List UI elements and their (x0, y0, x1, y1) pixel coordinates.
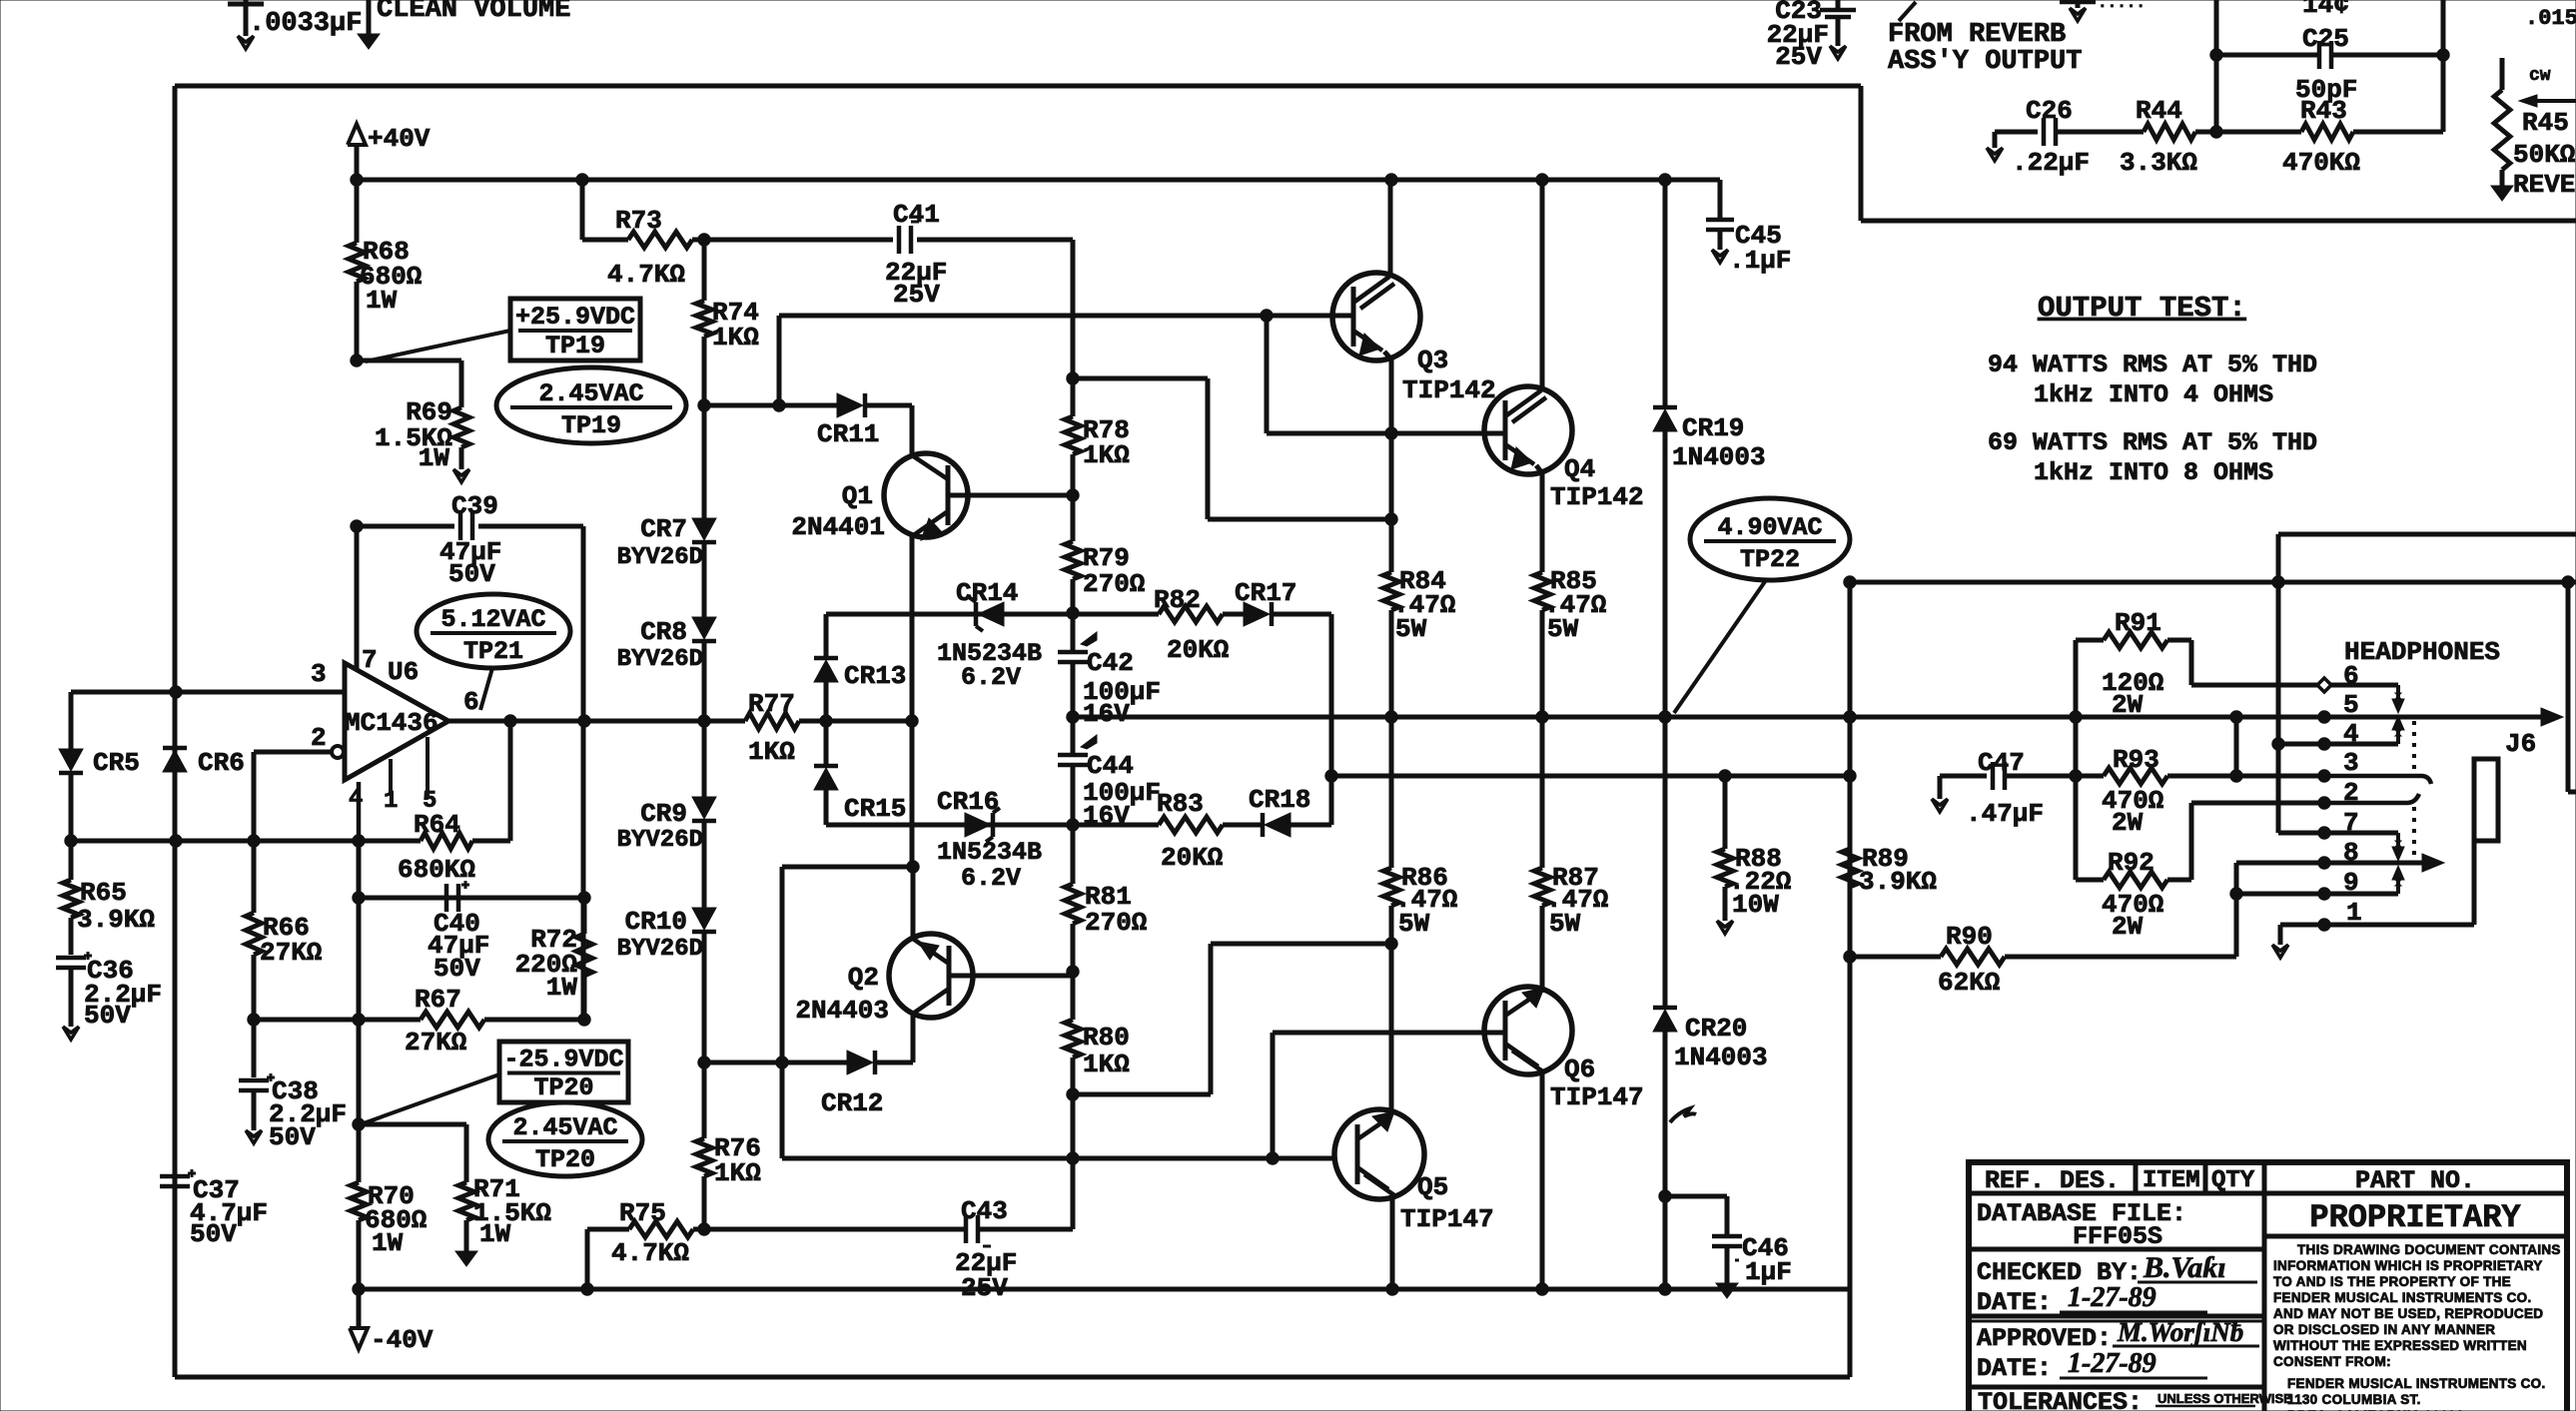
svg-text:1KΩ: 1KΩ (1083, 440, 1130, 470)
diode CR7 BYV26D (692, 518, 716, 540)
wire CLEAN VOLUME net (367, 0, 372, 34)
svg-text:DATE:: DATE: (1977, 1354, 2052, 1383)
resistor R70 680ohm 1W (357, 1124, 362, 1182)
wire to C42 (1071, 613, 1076, 651)
svg-text:CR8: CR8 (640, 617, 687, 647)
node R44/R43 junction (2210, 126, 2222, 138)
svg-text:4.7KΩ: 4.7KΩ (611, 1238, 689, 1268)
svg-text:R44: R44 (2136, 96, 2182, 126)
svg-text:4.7KΩ: 4.7KΩ (607, 260, 685, 290)
wire row 9 (2236, 892, 2324, 897)
op-amp pin4 stub (357, 782, 362, 841)
diode CR16 zener 1N5234B (965, 813, 991, 837)
svg-text:R93: R93 (2113, 745, 2159, 775)
svg-text:1-27-89: 1-27-89 (2068, 1282, 2156, 1313)
wire CR5 top (69, 692, 74, 749)
svg-text:REF. DES.: REF. DES. (1985, 1166, 2120, 1195)
diode CR19 1N4003 (1653, 405, 1677, 410)
wire upper corner feed (2278, 532, 2576, 537)
svg-text:1W: 1W (372, 1228, 404, 1258)
transistor Q5 TIP147 (1334, 1109, 1424, 1199)
svg-text:16V: 16V (1083, 699, 1130, 729)
svg-text:R45: R45 (2522, 108, 2569, 138)
testpoint box -25.9VDC TP20 (499, 1042, 628, 1102)
svg-text:TP20: TP20 (535, 1145, 595, 1174)
svg-text:6: 6 (463, 687, 479, 717)
svg-text:U6: U6 (388, 657, 419, 687)
svg-text:R91: R91 (2115, 608, 2161, 638)
svg-text:FROM REVERB: FROM REVERB (1888, 20, 2066, 50)
resistor R71 1.5K 1W (458, 1182, 474, 1220)
resistor R86 .47 5W (1389, 717, 1394, 868)
resistor R84 .47 5W (1383, 572, 1399, 610)
resistor R92 470 2W (2076, 878, 2104, 883)
svg-text:R80: R80 (1083, 1023, 1130, 1053)
svg-text:62KΩ: 62KΩ (1938, 968, 2000, 998)
wire CR7 chain upper (702, 405, 707, 518)
wire Q3 emitter down (1384, 352, 1391, 359)
wire Q3 base feed (777, 316, 782, 405)
node CR19/rail (1659, 711, 1671, 723)
svg-text:1N4003: 1N4003 (1674, 1043, 1768, 1072)
svg-text:TIP142: TIP142 (1550, 482, 1644, 512)
node CR12/Q2emitter-loop (776, 1057, 788, 1068)
capacitor C45 .1uF at +40 rail end (1718, 180, 1723, 219)
testpoint oval 5.12VAC TP21 (417, 594, 570, 668)
wire row 7 (2278, 831, 2398, 836)
resistor R77 1K (745, 713, 799, 729)
node Q1 base / R78-R79 (1067, 489, 1079, 501)
ground below R71 (filled) (455, 1251, 477, 1266)
capacitor C43 22uF 25V (964, 1215, 969, 1243)
svg-text:1130 COLUMBIA ST.: 1130 COLUMBIA ST. (2287, 1392, 2421, 1407)
svg-text:2W: 2W (2112, 808, 2144, 838)
svg-text:TP21: TP21 (463, 637, 523, 666)
wire stub diagonal (1899, 2, 1916, 21)
node rail/row3 link (2230, 711, 2242, 723)
svg-text:B.Vaƙı: B.Vaƙı (2143, 1251, 2226, 1284)
row9 corner switch arrow (2396, 880, 2400, 894)
svg-text:1W: 1W (366, 286, 398, 316)
resistor R44 3.3K (2144, 124, 2195, 140)
svg-text:CLEAN VOLUME: CLEAN VOLUME (377, 0, 570, 25)
capacitor C47 .47uF with ground stub (1938, 776, 1943, 799)
svg-text:.1µF: .1µF (1729, 246, 1791, 276)
svg-text:470KΩ: 470KΩ (2282, 148, 2360, 178)
node pin2 (2318, 797, 2330, 809)
wire Q1 emitter down (910, 536, 915, 867)
svg-text:7: 7 (362, 645, 378, 675)
row7 corner switch arrow (2396, 833, 2400, 847)
wire R64 vertical (508, 721, 513, 841)
wire phones feed from border (1844, 576, 1856, 588)
wire vertical right side of C25 (2441, 0, 2446, 132)
capacitor C36 2.2uF 50V (56, 956, 86, 961)
testpoint oval 2.45VAC TP19 (496, 367, 686, 443)
wire op-amp output (448, 719, 745, 724)
resistor R87 .47 5W (1540, 717, 1545, 868)
svg-text:CR15: CR15 (844, 794, 906, 824)
svg-text:1N4003: 1N4003 (1672, 442, 1766, 472)
resistor R78 1K (1065, 416, 1081, 454)
svg-text:1N5234B: 1N5234B (937, 838, 1042, 867)
diode CR8 BYV26D (692, 617, 716, 639)
ground below C36 (63, 1027, 79, 1040)
node R88 top (1719, 770, 1731, 782)
row1 ground stub (2278, 925, 2283, 945)
svg-text:+40V: +40V (368, 124, 430, 154)
+40V supply arrow (348, 124, 366, 145)
node R91 vert / rail (2070, 711, 2082, 723)
svg-text:1W: 1W (546, 973, 578, 1003)
wire phones feed row (1331, 774, 1850, 779)
TP22 pointer line (1674, 580, 1766, 713)
diode CR18 (1261, 813, 1266, 837)
transistor Q1 2N4401 (884, 453, 968, 537)
node row4 start (2272, 738, 2284, 750)
wire Q1 base to R78/R79 node (948, 493, 1073, 498)
-40V supply arrow (357, 1289, 362, 1328)
wire CR11 row (704, 403, 837, 408)
diode CR6 (on border line) (163, 746, 187, 751)
svg-text:TIP142: TIP142 (1402, 375, 1496, 405)
svg-text:BYV26D: BYV26D (617, 544, 703, 571)
svg-text:50V: 50V (84, 1001, 131, 1031)
op-amp U1 triangle U6 MC1436 (345, 663, 448, 780)
svg-text:PART NO.: PART NO. (2355, 1166, 2475, 1195)
testpoint oval 2.45VAC TP20 (488, 1102, 642, 1176)
svg-text:UNLESS OTHERWISE: UNLESS OTHERWISE (2157, 1391, 2292, 1406)
svg-text:2W: 2W (2112, 912, 2144, 942)
title block header row (1969, 1191, 2567, 1196)
svg-text:cw: cw (2529, 66, 2551, 86)
wire CR16 row (826, 823, 1073, 828)
ground (filled arrow) (358, 34, 380, 49)
ink smudge (1670, 1108, 1696, 1122)
svg-text:1: 1 (2346, 898, 2362, 928)
node CR13-CR15 / output wire (820, 715, 832, 727)
svg-text:3: 3 (2343, 748, 2359, 778)
svg-text:CR7: CR7 (640, 514, 687, 544)
wire CR17 corner down (1272, 612, 1331, 617)
node Q3 base feed tap (773, 399, 785, 411)
wire CR12 row (704, 1060, 847, 1065)
wire Q1 collector (910, 405, 915, 454)
row4 corner switch arrow (2396, 730, 2400, 744)
svg-text:4: 4 (2343, 719, 2359, 749)
wire Q4 collector to +40 (1540, 180, 1545, 390)
svg-text:25V: 25V (961, 1273, 1008, 1303)
resistor R64 680K (421, 833, 472, 849)
wire row1 to jack (2472, 841, 2477, 925)
wire R67 row (254, 1018, 421, 1023)
TP19 pointer line (366, 331, 510, 361)
node R66/R67 row (248, 1014, 260, 1026)
svg-text:3.9KΩ: 3.9KΩ (77, 905, 155, 935)
svg-text:TP20: TP20 (533, 1073, 593, 1102)
wire staircase from R80 (1073, 1092, 1211, 1097)
resistor R74 1K (702, 240, 707, 301)
svg-text:25V: 25V (893, 280, 940, 310)
svg-text:TP19: TP19 (561, 411, 621, 440)
node R80 bottom / staircase (1067, 1088, 1079, 1100)
svg-text:2: 2 (311, 723, 327, 753)
svg-text:5W: 5W (1547, 614, 1579, 644)
node R64/main rail (353, 835, 365, 847)
potentiometer R45 50K REVERB (2500, 58, 2505, 90)
node R67/R72 (578, 1014, 590, 1026)
svg-text:BYV26D: BYV26D (617, 827, 703, 854)
node output rail start (1067, 711, 1079, 723)
svg-text:4.90VAC: 4.90VAC (1717, 513, 1822, 542)
svg-text:270Ω: 270Ω (1083, 569, 1145, 599)
node row9 tap (2230, 888, 2242, 900)
svg-text:HEADPHONES: HEADPHONES (2344, 637, 2500, 667)
svg-text:.015µ: .015µ (2525, 6, 2576, 31)
svg-text:5: 5 (2343, 690, 2359, 720)
wire vertical from top to R44 row (2214, 0, 2219, 132)
speaker arrow at rail end (2541, 708, 2563, 726)
resistor R69 1.5K 1W (453, 407, 469, 447)
wire R90 row (1850, 955, 1941, 960)
wire CR14 row (826, 612, 1073, 617)
capacitor C40 47uF 50V (444, 884, 449, 912)
svg-text:R43: R43 (2300, 96, 2347, 126)
svg-text:PROPRIETARY: PROPRIETARY (2309, 1199, 2521, 1236)
svg-text:-40V: -40V (371, 1325, 433, 1355)
wire row 6 (2189, 640, 2194, 685)
resistor R43 470K (2301, 124, 2353, 140)
node right edge drop (2562, 576, 2574, 588)
wire rail to row3 vertical (2234, 717, 2239, 776)
capacitor C24 remnant with ground (2060, 0, 2096, 4)
wire to R71 (359, 1122, 466, 1127)
svg-text:1kHz INTO 4 OHMS: 1kHz INTO 4 OHMS (2034, 380, 2273, 409)
svg-text:1KΩ: 1KΩ (714, 1158, 761, 1188)
svg-text:2N4401: 2N4401 (791, 512, 885, 542)
node Q1 emitter / output wire (906, 715, 918, 727)
diode CR20 1N4003 (1653, 1006, 1677, 1011)
svg-text:27KΩ: 27KΩ (405, 1028, 466, 1058)
svg-text:+25.9VDC: +25.9VDC (515, 303, 635, 332)
transistor Q6 TIP147 (1484, 987, 1572, 1074)
wire Q3 collector to +40 (1388, 180, 1393, 277)
svg-text:5W: 5W (1398, 909, 1430, 939)
svg-text:-25.9VDC: -25.9VDC (503, 1046, 623, 1074)
resistor R91 120 2W (2076, 638, 2104, 643)
node Q6 base drop (1267, 1152, 1279, 1164)
diode CR5 (59, 749, 83, 771)
svg-text:C42: C42 (1087, 648, 1134, 678)
resistor R67 27K (421, 1012, 484, 1028)
ground below C45 (1712, 250, 1728, 263)
testpoint box +25.9VDC TP19 (510, 299, 640, 360)
svg-text:25V: 25V (1775, 42, 1822, 72)
capacitor C38 2.2uF 50V (252, 1020, 257, 1077)
wire Q6 collector (1540, 1070, 1545, 1289)
svg-text:TIP147: TIP147 (1400, 1204, 1494, 1234)
TP20 pointer line (361, 1074, 499, 1124)
svg-text:1kHz INTO 8 OHMS: 1kHz INTO 8 OHMS (2034, 458, 2273, 487)
svg-text:C41: C41 (893, 200, 940, 230)
svg-text:10W: 10W (1732, 890, 1779, 920)
svg-text:CR10: CR10 (625, 907, 687, 937)
resistor R89 3.9K (on border) (1842, 849, 1858, 887)
svg-text:R65: R65 (80, 878, 127, 908)
ground below C46 (filled) (1716, 1283, 1738, 1298)
svg-text:Q1: Q1 (842, 481, 873, 511)
R45 wiper arrow (2537, 99, 2576, 103)
svg-text:C39: C39 (451, 491, 498, 521)
svg-text:CR12: CR12 (821, 1088, 883, 1118)
node R85/rail (1536, 711, 1548, 723)
title block row dividers (1969, 1247, 2264, 1252)
diode CR10 BYV26D (692, 908, 716, 930)
transistor Q2 2N4403 (889, 934, 973, 1018)
row3 tip spring hook (2324, 776, 2431, 784)
jack dashed link upper (2412, 721, 2416, 771)
svg-text:1KΩ: 1KΩ (712, 323, 759, 353)
capacitor C23 (1836, 0, 1841, 10)
svg-text:7: 7 (2343, 808, 2359, 838)
svg-text:CR6: CR6 (198, 748, 245, 778)
svg-text:M.WorʃıNƀ: M.WorʃıNƀ (2117, 1317, 2243, 1347)
svg-text:C44: C44 (1087, 751, 1134, 781)
wire Q4 base drop (1265, 316, 1270, 433)
svg-text:FENDER MUSICAL INSTRUMENTS CO.: FENDER MUSICAL INSTRUMENTS CO. (2287, 1376, 2546, 1391)
capacitor C42 100uF 16V NP (1058, 650, 1088, 655)
diode CR14 zener 1N5234B (974, 602, 979, 626)
svg-text:J6: J6 (2505, 729, 2536, 759)
wire C46 branch (1665, 1194, 1727, 1199)
wire from box corner to sheet edge (1861, 219, 2576, 224)
op-amp pin5 stub (426, 737, 429, 796)
resistor R79 270ohm (1071, 495, 1076, 541)
svg-text:.0033µF: .0033µF (249, 9, 362, 39)
svg-text:Q4: Q4 (1564, 454, 1595, 484)
node R68 bottom / TP19 tap (351, 354, 363, 366)
node contact vertical / feed wire (2272, 576, 2284, 588)
node R78 top / staircase to Q3 emitter (1067, 372, 1079, 384)
resistor R65 3.9K (69, 841, 74, 880)
svg-text:REVER: REVER (2513, 170, 2576, 200)
wire main vertical R64->C40->R67->R70 (357, 841, 362, 1124)
node CR16 row / central vertical (1067, 819, 1079, 831)
svg-text:C47: C47 (1978, 748, 2025, 778)
node output/R64 (504, 715, 516, 727)
svg-text:.47µF: .47µF (1966, 799, 2044, 829)
testpoint oval 4.90VAC TP22 (1690, 498, 1850, 580)
wire CR20 vertical (1663, 717, 1668, 1008)
svg-text:50V: 50V (448, 559, 495, 589)
svg-text:ASS'Y OUTPUT: ASS'Y OUTPUT (1888, 47, 2082, 77)
node CR11 row left (698, 399, 710, 411)
wire R92 corner to row 2 (2189, 803, 2194, 880)
resistor R72 220ohm 1W (582, 898, 587, 934)
svg-text:1KΩ: 1KΩ (748, 737, 795, 767)
jack dashed link lower (2412, 807, 2416, 859)
capacitor C37 4.7uF 50V (on border) (160, 1174, 190, 1179)
svg-text:CR20: CR20 (1685, 1014, 1747, 1044)
svg-text:680KΩ: 680KΩ (398, 855, 475, 885)
wire R75 left drop (585, 1229, 590, 1289)
svg-text:CR18: CR18 (1249, 785, 1310, 815)
svg-text:6.2V: 6.2V (961, 663, 1021, 692)
wire CR13 top (824, 614, 829, 658)
wire R44/R43 row with C26 (1993, 132, 1998, 148)
svg-text:TP22: TP22 (1740, 545, 1800, 574)
wire R80 to C43 corner (1071, 1094, 1076, 1229)
wire staircase R78-Q3emitter (1073, 376, 1208, 381)
svg-text:R64: R64 (414, 810, 460, 840)
wire Q4 emitter down (1536, 465, 1542, 473)
node R86 bottom / staircase from R80 (1385, 938, 1397, 950)
PCB outline bottom border (175, 1375, 1850, 1380)
wire +40V rail (357, 178, 1720, 183)
wire Q5 collector (1390, 1194, 1395, 1289)
wire driver output long wire (782, 1156, 1335, 1161)
svg-text:5W: 5W (1549, 909, 1581, 939)
node long wire crossing (1067, 1152, 1079, 1164)
svg-text:TOLERANCES:: TOLERANCES: (1978, 1388, 2143, 1411)
svg-text:R67: R67 (415, 985, 461, 1015)
capacitor C44 100uF 16V NP (1058, 753, 1088, 758)
wire pin2 to R66 top (254, 750, 332, 755)
capacitor C25 50pF (2216, 53, 2319, 58)
resistor R93 470 2W (2104, 768, 2167, 784)
svg-text:R73: R73 (615, 206, 662, 236)
svg-text:TIP147: TIP147 (1550, 1082, 1644, 1112)
svg-text:DATE:: DATE: (1977, 1288, 2052, 1317)
svg-text:CR17: CR17 (1235, 578, 1296, 608)
node R64/R66 (248, 835, 260, 847)
wire Q2 collector (911, 1016, 916, 1062)
node CR10 bottom / CR12 row (698, 1057, 710, 1068)
svg-text:94 WATTS RMS AT 5% THD: 94 WATTS RMS AT 5% THD (1988, 351, 2317, 379)
wire C41 row (704, 238, 893, 243)
pin 6 open contact (2317, 678, 2331, 692)
svg-text:2W: 2W (2112, 690, 2144, 720)
svg-text:TO AND IS THE PROPERTY OF THE: TO AND IS THE PROPERTY OF THE (2273, 1274, 2511, 1289)
svg-text:Q3: Q3 (1417, 346, 1448, 375)
wire pin3 input (71, 690, 345, 695)
svg-text:CR5: CR5 (93, 748, 140, 778)
node CR8-CR9 / op-amp output wire (698, 715, 710, 727)
svg-text:R92: R92 (2108, 848, 2154, 878)
svg-text:CR11: CR11 (817, 419, 879, 449)
svg-text:.22µF: .22µF (2012, 148, 2090, 178)
wire Q2 emitter loop (911, 867, 916, 937)
svg-text:5W: 5W (1395, 614, 1427, 644)
node pin3 / CR6 (170, 686, 182, 698)
svg-text:2.45VAC: 2.45VAC (538, 379, 643, 408)
wire row 4 (2278, 742, 2398, 747)
svg-text:C25: C25 (2302, 24, 2349, 54)
svg-text:R77: R77 (748, 689, 795, 719)
svg-text:20KΩ: 20KΩ (1161, 843, 1223, 873)
node pin5 on rail (2318, 711, 2330, 723)
svg-text:ITEM: ITEM (2143, 1167, 2200, 1194)
wire Q6 base vertical (1271, 1033, 1276, 1158)
resistor R75 4.7K (629, 1221, 693, 1237)
resistor R90 62K (1941, 949, 2005, 965)
svg-text:R82: R82 (1154, 585, 1201, 615)
node CR20 bottom / C46 tap (1659, 1190, 1671, 1202)
svg-text:27KΩ: 27KΩ (260, 938, 322, 968)
wire R75 row (587, 1227, 629, 1232)
svg-text:20KΩ: 20KΩ (1167, 635, 1229, 665)
svg-text:270Ω: 270Ω (1085, 908, 1147, 938)
